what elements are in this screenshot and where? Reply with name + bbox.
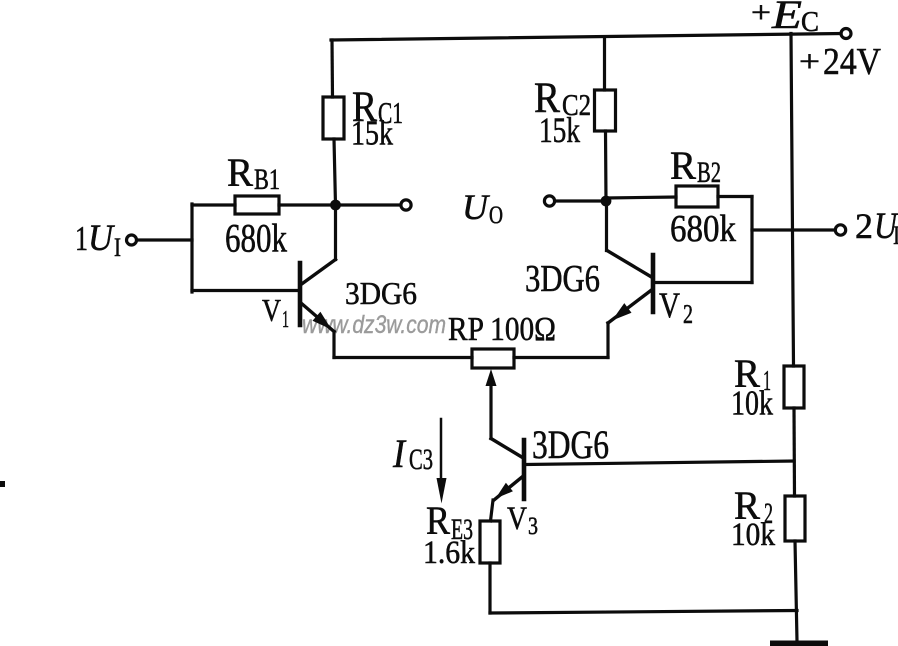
svg-text:3DG6: 3DG6 [525, 258, 600, 300]
svg-text:10k: 10k [731, 384, 773, 423]
svg-text:C3: C3 [409, 443, 433, 476]
svg-text:15k: 15k [351, 114, 393, 153]
svg-text:2: 2 [855, 206, 873, 246]
svg-text:V: V [507, 501, 527, 537]
svg-text:10k: 10k [731, 517, 775, 553]
svg-text:V: V [659, 285, 680, 325]
svg-text:RP 100Ω: RP 100Ω [448, 311, 556, 348]
svg-text:O: O [489, 202, 503, 229]
svg-text:R: R [227, 150, 253, 195]
svg-text:1.6k: 1.6k [423, 535, 475, 571]
svg-text:U: U [462, 187, 490, 227]
svg-text:R: R [670, 143, 696, 188]
svg-text:B1: B1 [254, 163, 280, 196]
svg-text:E: E [771, 0, 802, 37]
svg-text:1: 1 [75, 219, 88, 258]
svg-text:680k: 680k [670, 208, 736, 250]
svg-text:1: 1 [282, 307, 289, 333]
svg-text:680k: 680k [225, 216, 287, 261]
svg-text:I: I [114, 233, 121, 262]
svg-text:3DG6: 3DG6 [345, 275, 417, 311]
svg-text:B2: B2 [697, 156, 721, 189]
svg-text:+: + [751, 0, 771, 29]
svg-text:2: 2 [683, 299, 693, 329]
svg-text:+: + [799, 45, 820, 78]
svg-text:3DG6: 3DG6 [532, 422, 609, 467]
svg-text:C: C [801, 7, 819, 38]
svg-text:3: 3 [528, 513, 538, 540]
svg-text:I: I [392, 431, 406, 476]
svg-text:I: I [893, 221, 898, 250]
svg-text:U: U [88, 218, 115, 259]
svg-text:V: V [262, 292, 281, 328]
svg-text:15k: 15k [539, 110, 580, 150]
svg-text:24V: 24V [823, 41, 881, 83]
